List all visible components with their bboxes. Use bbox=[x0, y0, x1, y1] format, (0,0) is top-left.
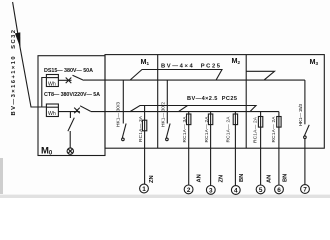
switch blade Q1 bbox=[122, 124, 126, 138]
scan smudge bottom band bbox=[0, 195, 330, 198]
node: switch terminal Q2 bbox=[166, 138, 169, 141]
svg-text:BN: BN bbox=[239, 174, 245, 182]
circuit circle 2 bbox=[184, 185, 193, 194]
svg-text:BN: BN bbox=[282, 174, 288, 182]
svg-text:Wh: Wh bbox=[48, 81, 56, 87]
fuse F4 bbox=[234, 112, 236, 186]
fuse X meter1 bbox=[66, 78, 72, 84]
wire: bus3 main bbox=[91, 111, 279, 113]
svg-text:BV—3×16+1×10 SC32: BV—3×16+1×10 SC32 bbox=[11, 30, 17, 116]
switch blade lamp bbox=[68, 118, 74, 132]
node: feeder arrowhead bbox=[15, 32, 21, 47]
svg-text:6: 6 bbox=[277, 187, 281, 194]
fuse F3 bbox=[210, 112, 212, 186]
wire: lamp tap bbox=[69, 112, 71, 118]
fuse F6 bbox=[278, 112, 280, 185]
svg-text:BV—4×2.5 PC25: BV—4×2.5 PC25 bbox=[187, 96, 237, 102]
wire: feeder riser to meter 1 bbox=[42, 78, 47, 108]
svg-text:RC1A— 2A: RC1A— 2A bbox=[204, 116, 210, 143]
label flag bus2 right (empty) bbox=[246, 71, 274, 80]
wire: branch7 switch drop bbox=[304, 80, 306, 124]
scan smudge left edge bbox=[0, 158, 3, 194]
svg-text:AN: AN bbox=[196, 174, 202, 182]
svg-text:RC1A— 2A: RC1A— 2A bbox=[226, 116, 232, 143]
svg-text:ZN: ZN bbox=[149, 175, 155, 183]
fuse X meter2 bbox=[74, 108, 80, 114]
lamp HL bbox=[67, 148, 73, 154]
svg-text:7: 7 bbox=[303, 187, 307, 194]
svg-text:RC1A— 3A: RC1A— 3A bbox=[138, 115, 144, 142]
wire: bus2 from meter1 to right corner bbox=[84, 79, 305, 81]
svg-text:RC1A— 3A: RC1A— 3A bbox=[182, 116, 188, 143]
node: switch terminal Q7 bbox=[304, 136, 307, 139]
svg-text:RC1A— 2A: RC1A— 2A bbox=[271, 116, 277, 143]
panel M0 box bbox=[38, 56, 105, 156]
wire: section divider 2 bbox=[245, 55, 247, 149]
wire: meter1 output bbox=[58, 79, 71, 81]
wire: section divider 1 bbox=[157, 55, 159, 149]
label flag bus3 mid diagonal bbox=[179, 106, 188, 112]
circuit circle 1 bbox=[140, 184, 149, 193]
meter Wh2 bbox=[46, 104, 58, 117]
wire: incoming feeder diagonal bbox=[13, 2, 47, 107]
circuit circle 6 bbox=[275, 185, 284, 194]
wire: lamp drop bbox=[69, 131, 71, 148]
svg-text:BV—4×4 PC25: BV—4×4 PC25 bbox=[161, 64, 221, 70]
svg-text:Wh: Wh bbox=[48, 111, 56, 117]
circuit circle 5 bbox=[256, 185, 265, 194]
wire: meter2 output bbox=[58, 111, 79, 113]
switch blade meter2 bbox=[80, 106, 91, 112]
switch blade Q7 bbox=[304, 125, 309, 136]
switch blade Q2 bbox=[166, 124, 170, 138]
wire: branch7 lower drop bbox=[304, 139, 306, 185]
svg-text:HK1— 15/3: HK1— 15/3 bbox=[298, 104, 304, 126]
svg-text:4: 4 bbox=[234, 188, 238, 195]
fuse F1 bbox=[144, 106, 146, 185]
svg-text:RC1A— 2A: RC1A— 2A bbox=[252, 116, 258, 143]
wire: branch1 switch drop bbox=[122, 80, 124, 123]
switch blade meter1 bbox=[73, 75, 84, 80]
svg-text:5: 5 bbox=[259, 187, 263, 194]
svg-text:1: 1 bbox=[142, 186, 146, 193]
label flag bus3 bump top bbox=[130, 106, 256, 112]
circuit circle 4 bbox=[231, 186, 240, 195]
circuit circle 3 bbox=[206, 186, 215, 195]
svg-text:CT8— 380V/220V— 5A: CT8— 380V/220V— 5A bbox=[44, 92, 100, 98]
svg-text:2: 2 bbox=[187, 187, 191, 194]
svg-text:3: 3 bbox=[209, 187, 213, 194]
svg-text:HK1— 30/2: HK1— 30/2 bbox=[161, 102, 167, 127]
svg-text:AN: AN bbox=[267, 175, 273, 183]
fuse F5 bbox=[260, 112, 262, 185]
svg-text:HK1— 30/3: HK1— 30/3 bbox=[116, 102, 122, 127]
panel box M1-M3 bbox=[105, 55, 324, 149]
svg-text:ZN: ZN bbox=[218, 175, 224, 183]
wire: branch2 switch drop bbox=[166, 80, 168, 123]
node: switch terminal Q1 bbox=[122, 138, 125, 141]
circuit circle 7 bbox=[301, 185, 310, 194]
label flag bus2 bbox=[130, 70, 222, 81]
meter Wh1 bbox=[46, 75, 58, 87]
svg-text:DS15— 380V— 50A: DS15— 380V— 50A bbox=[44, 68, 93, 74]
fuse F2 bbox=[188, 112, 190, 185]
